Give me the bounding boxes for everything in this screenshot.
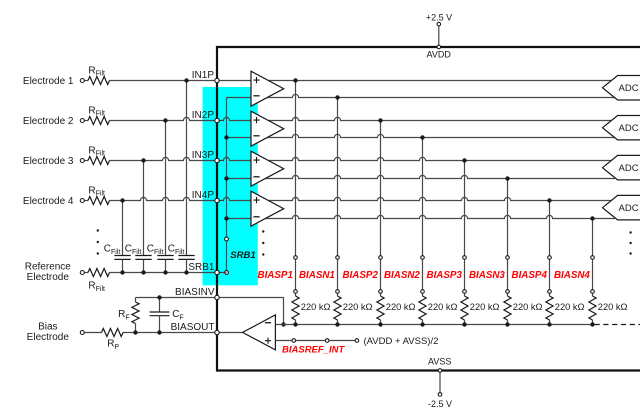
wire resistor 7 to bus <box>549 320 551 325</box>
resistor RP <box>102 329 123 337</box>
ellipsis more channels (amp side) <box>262 230 264 255</box>
svg-text:Electrode 4: Electrode 4 <box>23 196 74 207</box>
svg-text:RFilt: RFilt <box>88 185 105 197</box>
svg-text:IN1P: IN1P <box>192 70 215 81</box>
wire CFilt (ch3) to SRB1 row <box>143 259 145 272</box>
junction dot SRB1 net amp3 <box>224 176 228 180</box>
junction dot bias tap P2 <box>378 118 382 122</box>
wire bias tap column 1 <box>295 81 297 297</box>
junction dot bias tap N3 <box>505 176 509 180</box>
wire resistor 4 to bus <box>422 320 424 325</box>
junction dot SRB1 net amp2 <box>224 135 228 139</box>
op-amp buffer A1 <box>251 71 284 106</box>
resistor RFilt (ch2) <box>88 117 109 125</box>
junction dot BIASINV at bus <box>281 322 285 326</box>
svg-text:IN3P: IN3P <box>192 150 215 161</box>
junction dot RF bottom <box>133 330 137 334</box>
resistor 220k column 1 <box>292 296 299 320</box>
wire bias tap column 4 <box>422 138 424 297</box>
wire RF branch top <box>135 298 137 303</box>
svg-text:BIASN4: BIASN4 <box>554 270 590 281</box>
svg-text:RF: RF <box>118 309 130 321</box>
bias electrode label <box>27 322 70 344</box>
AVSS supply <box>438 369 442 397</box>
switch circle column 8 upper <box>591 256 595 260</box>
wire SRB1 row (reference electrode to SRB1 switch) <box>84 272 226 274</box>
resistor 220k column 7 <box>546 296 553 320</box>
wire bias tap column 7 <box>549 201 551 297</box>
junction dot bias tap P4 <box>547 198 551 202</box>
switch circle column 1 upper <box>294 256 298 260</box>
svg-text:AVDD: AVDD <box>427 50 452 60</box>
wire CFilt (ch1) to SRB1 row <box>186 259 188 272</box>
svg-text:220 kΩ: 220 kΩ <box>513 302 543 312</box>
svg-text:BIASREF_INT: BIASREF_INT <box>282 345 345 356</box>
svg-text:Reference: Reference <box>25 262 72 273</box>
reference electrode label <box>25 262 72 284</box>
junction dot bias tap P3 <box>462 158 466 162</box>
svg-text:220 kΩ: 220 kΩ <box>555 302 585 312</box>
wire amp1 inverting row (SRB1 to ADC1 N input) <box>227 94 616 97</box>
wire bias tap column 5 <box>464 161 466 297</box>
resistor 220k column 8 <box>589 296 596 320</box>
svg-text:BIASP3: BIASP3 <box>427 270 463 281</box>
wire resistor 3 to bus <box>380 320 382 325</box>
switch circle column 8 lower <box>591 290 595 294</box>
wire bias tap column 2 <box>337 98 339 297</box>
electrode 4 terminal <box>80 199 84 203</box>
resistor RFilt (reference) <box>88 269 109 277</box>
wire amp4 inverting row (SRB1 to ADC4 N input) <box>227 215 616 218</box>
wire electrode 2 tap column <box>165 121 167 256</box>
wire resistor 2 to bus <box>337 320 339 325</box>
pin IN4P <box>215 198 219 202</box>
resistor RF <box>132 302 139 323</box>
ADC block channel 4 <box>603 195 640 220</box>
svg-text:BIASN1: BIASN1 <box>299 270 335 281</box>
switch circle column 2 lower <box>336 290 340 294</box>
wire bias tap column 8 <box>592 219 594 297</box>
svg-text:BIASP1: BIASP1 <box>258 270 293 281</box>
capacitor CF plates <box>150 312 170 316</box>
junction dot bus column 8 <box>590 322 594 326</box>
junction dot CF bottom <box>157 330 161 334</box>
wire IN3P row (electrode 3 to ADC3 P input) <box>84 157 614 160</box>
svg-text:CFilt: CFilt <box>168 244 185 256</box>
wire bias tap column 3 <box>380 121 382 297</box>
wire RF branch bottom <box>135 324 137 333</box>
IC box bottom edge (AVSS rail) <box>217 369 640 371</box>
wire IN1P row (electrode 1 to ADC1 P input) <box>84 80 614 82</box>
op-amp buffer A2 <box>251 111 284 146</box>
electrode 3 terminal <box>80 159 84 163</box>
svg-text:CFilt: CFilt <box>104 244 121 256</box>
svg-text:220 kΩ: 220 kΩ <box>386 302 416 312</box>
svg-text:CFilt: CFilt <box>147 244 164 256</box>
op-amp buffer A3 <box>251 151 284 186</box>
junction dot bias tap N1 <box>335 95 339 99</box>
switch circle column 7 lower <box>548 290 552 294</box>
reference electrode terminal <box>80 271 84 275</box>
switch circle SRB1 upper <box>225 237 229 241</box>
switch circle column 1 lower <box>294 290 298 294</box>
ellipsis more channels (electrode side) <box>97 229 99 254</box>
pin SRB1 <box>215 270 219 274</box>
switch circle column 6 upper <box>506 256 510 260</box>
switch circle column 4 upper <box>421 256 425 260</box>
junction dot electrode 3 tap <box>141 158 145 162</box>
wire resistor 1 to bus <box>295 320 297 325</box>
electrode 1 terminal <box>80 79 84 83</box>
svg-text:220 kΩ: 220 kΩ <box>428 302 458 312</box>
resistor RFilt (ch4) <box>88 197 109 205</box>
svg-text:220 kΩ: 220 kΩ <box>470 302 500 312</box>
resistor 220k column 6 <box>504 296 511 320</box>
electrode 2 terminal <box>80 119 84 123</box>
switch circle column 4 lower <box>421 290 425 294</box>
AVDD supply <box>437 22 441 48</box>
junction dot CFilt ch1 on SRB1 row <box>184 270 188 274</box>
resistor 220k column 3 <box>377 296 384 320</box>
svg-text:RFilt: RFilt <box>88 145 105 157</box>
svg-text:Electrode 1: Electrode 1 <box>23 76 74 87</box>
svg-text:220 kΩ: 220 kΩ <box>343 302 373 312</box>
junction dot CFilt ch3 on SRB1 row <box>141 270 145 274</box>
junction dot electrode 1 tap <box>184 78 188 82</box>
wire resistor 5 to bus <box>464 320 466 325</box>
svg-text:AVSS: AVSS <box>428 356 451 366</box>
svg-text:Bias: Bias <box>38 322 57 333</box>
svg-text:IN2P: IN2P <box>192 110 215 121</box>
capacitor CFilt (ch3) plates <box>135 256 151 260</box>
svg-text:+2.5 V: +2.5 V <box>426 13 452 23</box>
wire amp2 inverting row (SRB1 to ADC2 N input) <box>227 134 616 137</box>
switch circle bias ref 2 <box>325 339 329 343</box>
ADC block channel 2 <box>603 116 640 140</box>
wire BIASINV row and drop to bus <box>136 298 284 325</box>
resistor 220k column 4 <box>419 296 426 320</box>
wire electrode 4 tap column <box>122 201 124 256</box>
svg-text:BIASN2: BIASN2 <box>384 270 420 281</box>
wire electrode 3 tap column <box>143 161 145 256</box>
junction dot bus column 5 <box>462 322 466 326</box>
wire CFilt (ch2) to SRB1 row <box>165 259 167 272</box>
junction dot bias tap N2 <box>420 135 424 139</box>
junction dot electrode 2 tap <box>163 118 167 122</box>
svg-text:220 kΩ: 220 kΩ <box>598 302 628 312</box>
wire SRB1 feedback vertical <box>226 98 228 273</box>
ellipsis more channels (ADC side) <box>629 231 631 254</box>
junction dot bias tap N4 <box>590 216 594 220</box>
svg-text:SRB1: SRB1 <box>230 250 255 261</box>
resistor RFilt (ch3) <box>88 157 109 165</box>
junction dot bus column 2 <box>335 322 339 326</box>
wire IN2P row (electrode 2 to ADC2 P input) <box>84 117 614 120</box>
svg-text:BIASP2: BIASP2 <box>343 270 379 281</box>
capacitor CFilt (ch1) plates <box>178 256 194 260</box>
resistor 220k column 2 <box>334 296 341 320</box>
switch circle column 3 lower <box>379 290 383 294</box>
junction dot CF top <box>157 295 161 299</box>
svg-text:BIASN3: BIASN3 <box>469 270 505 281</box>
capacitor CFilt (ch2) plates <box>157 256 173 260</box>
svg-text:Electrode 2: Electrode 2 <box>23 116 74 127</box>
wire BIASOUT row (bias electrode to bias amp output) <box>84 332 242 334</box>
svg-text:Electrode: Electrode <box>27 332 70 343</box>
op-amp bias amplifier <box>243 315 276 350</box>
wire electrode 1 tap column <box>186 81 188 256</box>
switch circle column 5 upper <box>463 256 467 260</box>
wire CF branch bottom <box>159 316 161 333</box>
ADC block channel 3 <box>603 155 640 180</box>
bias electrode terminal <box>80 331 84 335</box>
switch circle column 7 upper <box>548 256 552 260</box>
junction dot SRB1 net amp4 <box>224 216 228 220</box>
svg-text:Electrode: Electrode <box>27 272 70 283</box>
wire resistor 8 to bus <box>592 320 594 325</box>
svg-text:ADC: ADC <box>619 83 639 94</box>
switch circle bias ref 1 <box>292 339 296 343</box>
svg-text:ADC: ADC <box>619 203 639 214</box>
svg-text:BIASOUT: BIASOUT <box>171 322 215 333</box>
wire CFilt (ch4) to SRB1 row <box>122 259 124 272</box>
resistor RFilt (ch1) <box>88 77 109 85</box>
junction dot bus column 7 <box>547 322 551 326</box>
svg-text:RFilt: RFilt <box>88 281 105 293</box>
svg-text:IN4P: IN4P <box>192 190 215 201</box>
wire CF branch top <box>159 298 161 313</box>
junction dot CFilt ch4 on SRB1 row <box>120 270 124 274</box>
svg-text:SRB1: SRB1 <box>188 262 215 273</box>
svg-text:ADC: ADC <box>619 163 639 174</box>
junction dot bias tap P1 <box>293 78 297 82</box>
wire bias bus (220k commons to bias amp inverting input) <box>275 324 592 326</box>
svg-text:RFilt: RFilt <box>88 105 105 117</box>
svg-text:CF: CF <box>172 309 184 321</box>
wire bias tap column 6 <box>507 179 509 297</box>
junction dot bus column 1 <box>293 322 297 326</box>
SRB1 routing highlight <box>203 87 258 285</box>
junction dot bus column 4 <box>420 322 424 326</box>
svg-text:ADC: ADC <box>619 123 639 134</box>
wire bias reference select <box>275 340 357 342</box>
pin IN3P <box>215 158 219 162</box>
terminal circle external midsupply <box>355 339 359 343</box>
wire IN4P row (electrode 4 to ADC4 P input) <box>84 197 614 200</box>
wire bias bus dashed continuation <box>595 324 640 326</box>
pin BIASOUT <box>215 330 219 334</box>
wire amp3 inverting row (SRB1 to ADC3 N input) <box>227 175 616 178</box>
svg-text:BIASINV: BIASINV <box>175 287 215 298</box>
junction dot CFilt ch2 on SRB1 row <box>163 270 167 274</box>
svg-text:-2.5 V: -2.5 V <box>428 399 452 409</box>
switch circle column 3 upper <box>379 256 383 260</box>
wire resistor 6 to bus <box>507 320 509 325</box>
svg-text:RFilt: RFilt <box>88 65 105 77</box>
pin BIASINV <box>215 295 219 299</box>
svg-text:RP: RP <box>107 339 119 351</box>
resistor 220k column 5 <box>461 296 468 320</box>
svg-text:220 kΩ: 220 kΩ <box>301 302 331 312</box>
ADC block channel 1 <box>603 76 640 101</box>
junction dot bus column 6 <box>505 322 509 326</box>
switch circle column 5 lower <box>463 290 467 294</box>
junction dot bus column 3 <box>378 322 382 326</box>
svg-text:Electrode 3: Electrode 3 <box>23 156 74 167</box>
svg-text:(AVDD + AVSS)/2: (AVDD + AVSS)/2 <box>364 336 439 347</box>
pin IN2P <box>215 118 219 122</box>
IC box top edge (AVDD rail) <box>217 46 640 48</box>
junction dot electrode 4 tap <box>120 198 124 202</box>
IC box left edge <box>216 46 218 372</box>
switch circle column 6 lower <box>506 290 510 294</box>
op-amp buffer A4 <box>251 191 284 226</box>
svg-text:BIASP4: BIASP4 <box>512 270 548 281</box>
pin IN1P <box>215 78 219 82</box>
svg-text:CFilt: CFilt <box>125 244 142 256</box>
switch circle SRB1 lower (on SRB1 row) <box>225 271 229 275</box>
switch circle column 2 upper <box>336 256 340 260</box>
capacitor CFilt (ch4) plates <box>114 256 130 260</box>
